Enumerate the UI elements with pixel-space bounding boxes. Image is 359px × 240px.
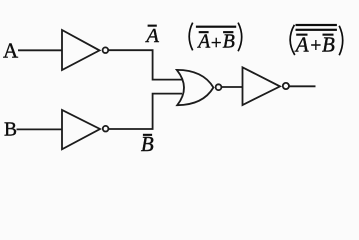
- node Abar label: [144, 25, 159, 47]
- wire B to inverter U2: [17, 128, 63, 130]
- wire U2 output, corner up to NOR bottom input: [109, 94, 183, 129]
- inverter U4 (NOT gate, output stage): [243, 67, 281, 105]
- svg-text:+: +: [310, 35, 321, 56]
- output wire: [289, 85, 315, 87]
- svg-text:B: B: [4, 120, 17, 141]
- svg-text:B: B: [141, 132, 154, 156]
- inverter U2 (NOT gate, input B): [62, 110, 100, 149]
- inverter U1 (NOT gate, input A): [62, 30, 100, 70]
- NOR gate U3: [177, 70, 214, 105]
- svg-text:A: A: [144, 25, 159, 47]
- svg-text:+: +: [211, 33, 222, 54]
- svg-text:B: B: [322, 32, 335, 56]
- inverter U2 output bubble: [103, 126, 109, 132]
- NOR gate U3 output bubble: [216, 84, 222, 90]
- label (Abar + Bbar) with overline : NOR output expression: [189, 23, 242, 54]
- svg-text:A: A: [294, 32, 309, 56]
- wire A to inverter U1: [18, 49, 62, 51]
- inverter U4 output bubble: [283, 83, 289, 89]
- wire NOR output to inverter U4: [221, 86, 242, 88]
- svg-text:A: A: [196, 32, 210, 53]
- inverter U1 output bubble: [103, 47, 109, 53]
- svg-text:A: A: [3, 39, 19, 63]
- svg-text:B: B: [223, 31, 235, 53]
- node Bbar label: [141, 132, 154, 156]
- wire U1 output, corner down to NOR top input: [108, 50, 182, 79]
- label (Abar + Bbar) with double overline : final output expression: [290, 24, 343, 57]
